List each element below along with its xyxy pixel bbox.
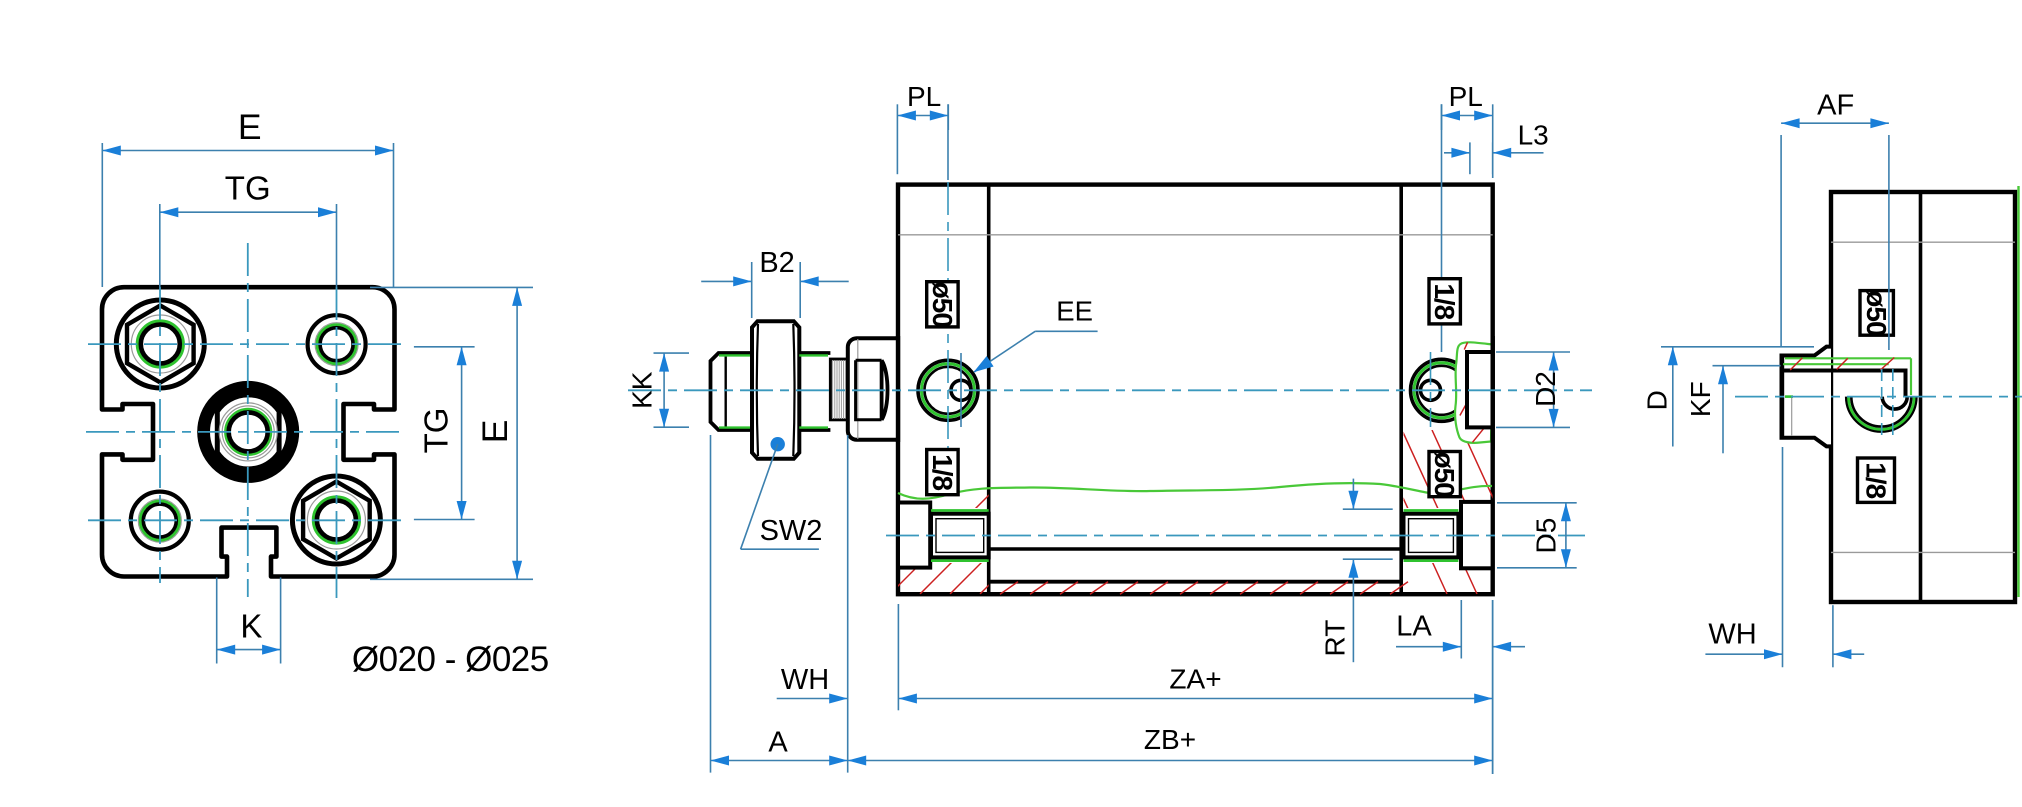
rod lock-nut hexagon (side view) (752, 321, 799, 459)
left view: vertical centerline (247, 243, 249, 597)
left cap sensor slot: outer step (898, 503, 930, 568)
svg-text:L3: L3 (1518, 120, 1549, 151)
section hatching: right cap (1372, 430, 1627, 594)
middle view: barrel bore bottom line (989, 547, 1401, 550)
right view: body outline (1831, 192, 2015, 602)
left cap port marking box 1/8 (927, 450, 958, 495)
dimension RT (slot depth) (1343, 508, 1393, 510)
middle view: upper profile line (898, 234, 1493, 236)
section hatching: left cap (890, 490, 1174, 594)
svg-text:1/8: 1/8 (1861, 462, 1892, 498)
right port: thread hole (1421, 380, 1441, 400)
svg-text:SW2: SW2 (760, 515, 823, 547)
right port vertical extension (1441, 104, 1443, 352)
left view: bottom-left mounting hole (131, 492, 189, 550)
left view: horizontal centerline (86, 431, 404, 433)
dimension TG (top hole spacing) (159, 204, 161, 287)
dimension D5 (slot step) (1497, 502, 1577, 504)
dimension ZB+ (848, 760, 1493, 762)
left view: bottom-right mounting screw (292, 476, 380, 564)
middle view: barrel outer bottom line (989, 580, 1401, 584)
right view: thread green band (1785, 357, 1911, 359)
left port: green seal ring (922, 364, 975, 417)
dimension PL (left) (896, 104, 898, 174)
section hatching: near cushion tab (1464, 342, 1467, 349)
right port: outer ring (1411, 359, 1473, 421)
svg-text:RT: RT (1320, 620, 1351, 657)
left cap port marking box ø50 (927, 282, 958, 327)
dimension K (bottom slot) (216, 577, 218, 663)
right port: inner ring (1417, 366, 1466, 415)
svg-text:ø50: ø50 (927, 282, 958, 328)
right view: green cut line at image edge (2017, 186, 2019, 597)
dimension ZA+ (897, 604, 899, 710)
seal/break line: green wavy line across body (898, 483, 1492, 499)
left view: hole column centerline left (159, 287, 161, 583)
rod end cup (856, 360, 882, 420)
right view: thread hatch marks (1790, 358, 1802, 370)
svg-text:AF: AF (1817, 89, 1854, 121)
svg-text:TG: TG (225, 170, 271, 207)
left view: top-left mounting screw (116, 300, 204, 388)
svg-text:EE: EE (1056, 295, 1093, 326)
svg-text:KK: KK (626, 371, 657, 409)
main horizontal centerline (628, 389, 1592, 391)
svg-text:1/8: 1/8 (927, 454, 958, 490)
svg-text:K: K (240, 608, 262, 645)
left port: outer ring (918, 360, 978, 420)
middle view: body left edge over shoulder (896, 336, 900, 442)
middle view: right cap parting line (1399, 185, 1403, 595)
left view: hole row centerline bottom (88, 519, 405, 521)
dimension B2 (nut width) (751, 262, 753, 318)
svg-text:E: E (238, 107, 262, 147)
dimension AF (1780, 135, 1782, 347)
dimension KF (thread) (1713, 365, 1781, 367)
right view: rod boss (1782, 347, 1832, 447)
svg-text:ZA+: ZA+ (1169, 664, 1221, 695)
dimension L3 (1469, 142, 1471, 174)
svg-text:D5: D5 (1531, 518, 1562, 554)
dimension TG (right, vertical) (414, 346, 475, 348)
svg-text:LA: LA (1396, 611, 1432, 643)
right cap body edge restored (1490, 336, 1494, 450)
left port: inner ring (925, 367, 972, 414)
rod neck section (830, 359, 847, 420)
green freeform around cushion tab (1455, 342, 1493, 443)
middle view: cylinder body outline (898, 185, 1493, 595)
right view: lower profile line (1831, 551, 2015, 553)
left EE hole centerline (960, 353, 962, 427)
middle view: left cap parting line (987, 185, 991, 595)
svg-text:WH: WH (781, 664, 829, 696)
left view: center rod thread hole (204, 387, 293, 476)
rod bushing shoulder (848, 338, 898, 440)
left view: end-cap plate outline with sensor slots (102, 287, 395, 576)
left view: hole row centerline top (88, 343, 405, 345)
svg-text:D: D (1642, 390, 1673, 410)
svg-text:ø50: ø50 (1861, 290, 1892, 336)
right cap port marking box ø50 (1429, 452, 1460, 497)
dimension E (top width) (101, 143, 103, 287)
left cap sensor slot: green seats (931, 509, 989, 512)
right cap sensor slot: green seats (1404, 509, 1459, 512)
svg-text:ZB+: ZB+ (1144, 724, 1196, 755)
right cap sensor slot: cavity (1404, 514, 1459, 558)
left port vertical centerline (947, 104, 949, 180)
dimension E (right, vertical) (370, 286, 533, 288)
right view port marking box 1/8 (1858, 458, 1895, 502)
right cap cushion tab (1467, 352, 1493, 427)
section hatching: bottom band (1000, 582, 1018, 595)
dimension D2 (cushion tab) (1496, 351, 1570, 353)
left cap sensor slot: cavity (931, 514, 989, 558)
dimension D (rod) (1661, 346, 1814, 348)
svg-text:WH: WH (1708, 619, 1756, 651)
svg-text:B2: B2 (759, 247, 794, 279)
left view: hole column centerline right (336, 287, 338, 598)
piston rod thread (inner section) (799, 351, 830, 355)
piston rod thread (outer section) (711, 353, 753, 430)
left port: EE thread hole (951, 380, 971, 400)
dimension WH (rod extension) (777, 698, 848, 700)
dimension A (710, 435, 712, 773)
callout SW2 (wrench flats) (771, 437, 785, 451)
dimension LA (1460, 600, 1462, 659)
svg-text:TG: TG (418, 408, 455, 454)
right view: bearing arcs (1847, 397, 1916, 431)
svg-text:PL: PL (907, 81, 941, 112)
right view port marking box ø50 (1860, 291, 1893, 336)
sensor slot row centerline (886, 535, 1585, 537)
left view: top-right mounting hole (308, 315, 366, 373)
svg-text:1/8: 1/8 (1429, 283, 1460, 319)
right view: cap parting line (1919, 192, 1923, 602)
svg-text:A: A (768, 727, 788, 759)
right cap port marking box 1/8 (1429, 279, 1460, 324)
right cap sensor slot: outer step (1461, 502, 1493, 568)
right port: green seal ring (1414, 363, 1469, 418)
right view: piston rod (1783, 371, 1906, 397)
right view: horizontal centerline (1735, 396, 2022, 398)
svg-text:PL: PL (1449, 81, 1483, 112)
svg-text:Ø020 - Ø025: Ø020 - Ø025 (352, 640, 549, 679)
right view: hidden thread lines (1881, 369, 1883, 435)
svg-text:KF: KF (1685, 381, 1716, 417)
svg-text:ø50: ø50 (1429, 451, 1460, 497)
dimension PL (right) (1441, 104, 1443, 130)
dimension KK (thread) (654, 352, 690, 354)
svg-text:E: E (475, 420, 515, 444)
svg-text:D2: D2 (1530, 371, 1561, 407)
right view: upper profile line (1831, 241, 2015, 243)
right port hole centerline (1430, 352, 1432, 427)
dimension WH (right view) (1782, 447, 1784, 667)
